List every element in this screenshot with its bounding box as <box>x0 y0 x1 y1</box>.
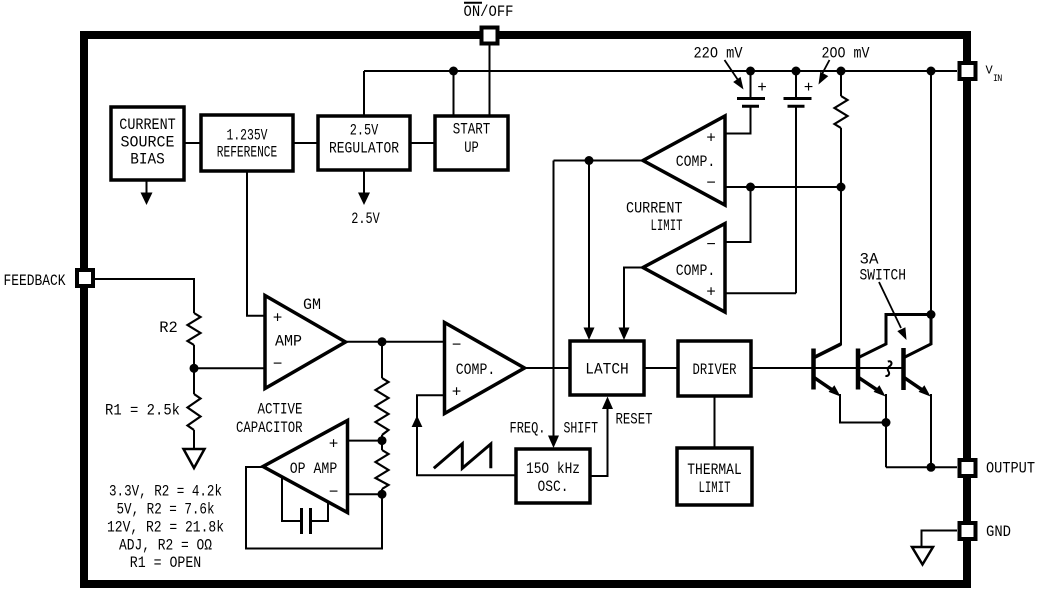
comparator current limit 1 triangle <box>643 116 725 205</box>
svg-text:+: + <box>706 284 716 302</box>
pin FEEDBACK <box>77 270 93 286</box>
sense resistor <box>835 96 848 128</box>
resistor R2 <box>188 313 201 345</box>
wire: op-amp - input <box>348 493 383 495</box>
svg-text:DRIVER: DRIVER <box>693 361 737 379</box>
op-amp integrator capacitor legs <box>282 478 300 522</box>
svg-text:−: − <box>273 355 283 373</box>
svg-text:SHIFT: SHIFT <box>564 420 599 438</box>
svg-text:SWITCH: SWITCH <box>860 267 907 285</box>
svg-text:FREQ.: FREQ. <box>510 420 546 438</box>
wire: comp1 drop to latch <box>588 161 590 330</box>
svg-text:R2: R2 <box>159 319 178 337</box>
arrow: 220 mV pointer <box>725 60 739 80</box>
svg-text:2.5V: 2.5V <box>351 210 380 228</box>
arrow: 3A switch pointer <box>879 282 901 328</box>
wire: chain to op-amp + node <box>381 435 383 450</box>
wire: comparator output to latch <box>525 367 571 369</box>
svg-text:OP AMP: OP AMP <box>290 460 338 478</box>
wire: Q2 emitter drop to output bus <box>885 394 887 467</box>
svg-text:+: + <box>804 79 814 97</box>
junction dot start-up branch <box>449 67 458 76</box>
wire: VIN rail from regulator riser to VIN pin <box>364 70 957 72</box>
wire: active capacitor chain upper vertical <box>381 342 383 378</box>
capacitor 200mV legs <box>795 71 797 97</box>
junction dot comp1 - rail right <box>837 183 846 192</box>
arrow: current source bias down arrow <box>146 180 148 194</box>
svg-text:ON/OFF: ON/OFF <box>464 3 514 21</box>
wire: driver to switch base <box>751 367 904 369</box>
svg-text:12V, R2 = 21.8k: 12V, R2 = 21.8k <box>107 519 224 537</box>
svg-text:COMP.: COMP. <box>676 262 716 280</box>
svg-text:COMP.: COMP. <box>676 153 716 171</box>
svg-text:+: + <box>706 130 716 148</box>
wire: feedback pin to R2 <box>95 279 194 313</box>
svg-text:AMP: AMP <box>275 333 302 351</box>
box: driver <box>678 341 751 396</box>
capacitor 220mV top leg <box>750 71 752 97</box>
svg-text:RESET: RESET <box>616 411 653 429</box>
op-amp active capacitor triangle <box>263 421 348 513</box>
resistor chain lower <box>376 450 389 489</box>
wire: VIN rail drop to switch collector node <box>930 71 932 315</box>
svg-text:FEEDBACK: FEEDBACK <box>4 272 66 290</box>
wire: comp1 + input to cap1 <box>725 106 751 134</box>
svg-text:IN: IN <box>993 73 1002 85</box>
svg-text:+: + <box>757 79 767 97</box>
svg-text:5V, R2 = 7.6k: 5V, R2 = 7.6k <box>117 501 215 519</box>
junction dot comp1 output <box>585 156 594 165</box>
svg-text:ACTIVE: ACTIVE <box>258 401 303 419</box>
svg-text:CURRENT: CURRENT <box>119 116 176 134</box>
svg-text:1.235V: 1.235V <box>227 127 268 145</box>
op-amp integrator capacitor plates <box>300 508 303 534</box>
svg-text:SOURCE: SOURCE <box>121 133 175 151</box>
wire: sense resistor to Q1 collector <box>840 128 842 345</box>
ground below R1 <box>184 449 205 468</box>
svg-text:LIMIT: LIMIT <box>651 217 683 235</box>
box: 2.5V regulator <box>318 116 410 170</box>
wire: GND pin to ground symbol <box>922 531 958 548</box>
wire: driver to thermal limit <box>714 396 716 448</box>
wire: R2/R1 junction vertical <box>193 345 195 394</box>
comparator current limit 2 triangle <box>643 224 725 313</box>
wire: op-amp + input <box>348 440 383 442</box>
junction dot comp1 - rail left <box>746 183 755 192</box>
svg-text:REFERENCE: REFERENCE <box>217 144 278 162</box>
wire: op-amp feedback loop <box>246 467 382 549</box>
wire: Q1 emitter drop <box>840 394 886 423</box>
sawtooth waveform <box>434 444 491 469</box>
junction dot sense resistor on VIN rail <box>837 67 846 76</box>
arrow: 200 mV pointer <box>822 60 830 74</box>
wire: R1 to ground <box>193 430 195 449</box>
sense resistor top leg <box>840 71 842 96</box>
transistor Q1 base bar <box>811 349 816 390</box>
svg-text:REGULATOR: REGULATOR <box>329 140 399 158</box>
junction dot GM output <box>378 337 387 346</box>
junction dot op-amp + <box>378 436 387 445</box>
pin OUTPUT <box>960 460 976 476</box>
wire: start-up drop from VIN rail <box>453 71 455 117</box>
transistor Q1 emitter <box>814 378 836 393</box>
svg-text:OSC.: OSC. <box>538 478 569 496</box>
svg-text:−: − <box>706 175 716 193</box>
box: thermal limit <box>677 448 752 505</box>
box: latch <box>570 341 644 395</box>
arrowhead on oscillator ramp feed <box>412 416 423 428</box>
junction dot collector node <box>927 310 936 319</box>
svg-text:−: − <box>452 337 462 355</box>
wire: Q3 emitter drop <box>930 394 932 467</box>
transistor Q3 emitter <box>904 378 926 393</box>
pin ON/OFF <box>482 28 498 44</box>
svg-text:R1 = OPEN: R1 = OPEN <box>130 554 202 572</box>
svg-text:+: + <box>452 384 462 402</box>
svg-text:+: + <box>273 310 283 328</box>
box: 150 kHz oscillator <box>516 449 590 503</box>
transistor Q1 collector <box>814 344 841 358</box>
junction dot R2/R1 <box>190 364 199 373</box>
svg-text:OUTPUT: OUTPUT <box>986 460 1035 478</box>
transistor Q3 base bar <box>901 348 906 390</box>
resistor R1 <box>188 394 201 430</box>
transistor Q2 base bar <box>856 349 861 390</box>
wire: reference to regulator <box>293 142 318 144</box>
junction dot cap2 on VIN rail <box>792 67 801 76</box>
box: start up <box>435 116 508 170</box>
base squiggle <box>885 361 891 376</box>
svg-text:+: + <box>329 436 339 454</box>
transistor Q2 collector <box>859 315 932 358</box>
wire: oscillator reset to latch <box>590 408 608 476</box>
op-amp GM amp triangle <box>265 296 346 389</box>
svg-text:CAPACITOR: CAPACITOR <box>236 419 303 437</box>
resistor chain upper <box>376 378 389 435</box>
wire: output bus to OUTPUT pin <box>886 466 957 468</box>
svg-text:−: − <box>706 236 716 254</box>
svg-text:START: START <box>453 121 491 139</box>
wire: comp2 + input to cap2 <box>725 292 796 294</box>
svg-text:CURRENT: CURRENT <box>626 200 683 218</box>
box: 1.235V reference <box>201 115 293 171</box>
svg-text:COMP.: COMP. <box>456 361 496 379</box>
arrow: 2.5V regulator down arrow <box>363 170 365 194</box>
capacitor 200mV plates <box>784 97 812 100</box>
wire: current source bias to reference <box>184 142 201 144</box>
junction dot emitter bus <box>882 418 891 427</box>
svg-text:15O kHz: 15O kHz <box>526 460 580 478</box>
wire: comp2 - input riser <box>725 187 751 242</box>
box: current source bias <box>111 107 184 180</box>
svg-text:GND: GND <box>986 523 1011 541</box>
svg-text:GM: GM <box>303 296 321 314</box>
junction dot output bus <box>927 463 936 472</box>
svg-text:2OO mV: 2OO mV <box>822 45 870 63</box>
svg-text:LIMIT: LIMIT <box>699 479 731 497</box>
wire: comp1 output to freq-shift drop <box>554 160 644 162</box>
svg-text:R1 = 2.5k: R1 = 2.5k <box>105 402 180 420</box>
capacitor 220mV plates <box>737 97 765 100</box>
wire: latch to driver <box>644 367 678 369</box>
junction dot cap1 on VIN rail <box>746 67 755 76</box>
wire: regulator to start-up <box>410 142 435 144</box>
svg-text:22O mV: 22O mV <box>694 45 743 63</box>
ground symbol at GND <box>912 547 933 565</box>
wire: reference drop to GM amp + input <box>247 171 265 316</box>
transistor Q2 emitter <box>859 378 882 393</box>
wire: junction to GM amp - input <box>194 367 265 369</box>
wire: comp1 - input rail <box>725 186 841 188</box>
pin VIN <box>960 63 976 79</box>
transistor Q3 collector <box>904 315 931 358</box>
wire: GM amp output to comparator - input <box>346 341 445 343</box>
svg-text:BIAS: BIAS <box>130 151 165 169</box>
wire: comparator + input from oscillator <box>417 395 516 475</box>
pin GND <box>960 523 976 539</box>
wire: comp2 output drop to latch <box>624 268 643 330</box>
wire: freq shift drop to oscillator <box>553 161 555 438</box>
svg-text:ADJ, R2 = OΩ: ADJ, R2 = OΩ <box>119 537 212 555</box>
svg-text:3.3V, R2 = 4.2k: 3.3V, R2 = 4.2k <box>109 483 222 501</box>
junction dot op-amp - <box>378 490 387 499</box>
IC outline border <box>84 35 967 584</box>
svg-text:LATCH: LATCH <box>585 361 629 379</box>
wire: ON/OFF pin drop to start-up <box>489 45 491 117</box>
svg-text:−: − <box>329 484 339 502</box>
svg-text:THERMAL: THERMAL <box>687 461 742 479</box>
svg-text:UP: UP <box>464 139 479 157</box>
comparator main triangle <box>445 323 525 414</box>
wire: 2.5V regulator top riser <box>363 71 365 117</box>
svg-text:2.5V: 2.5V <box>350 122 379 140</box>
junction dot switch drop on VIN rail <box>927 67 936 76</box>
